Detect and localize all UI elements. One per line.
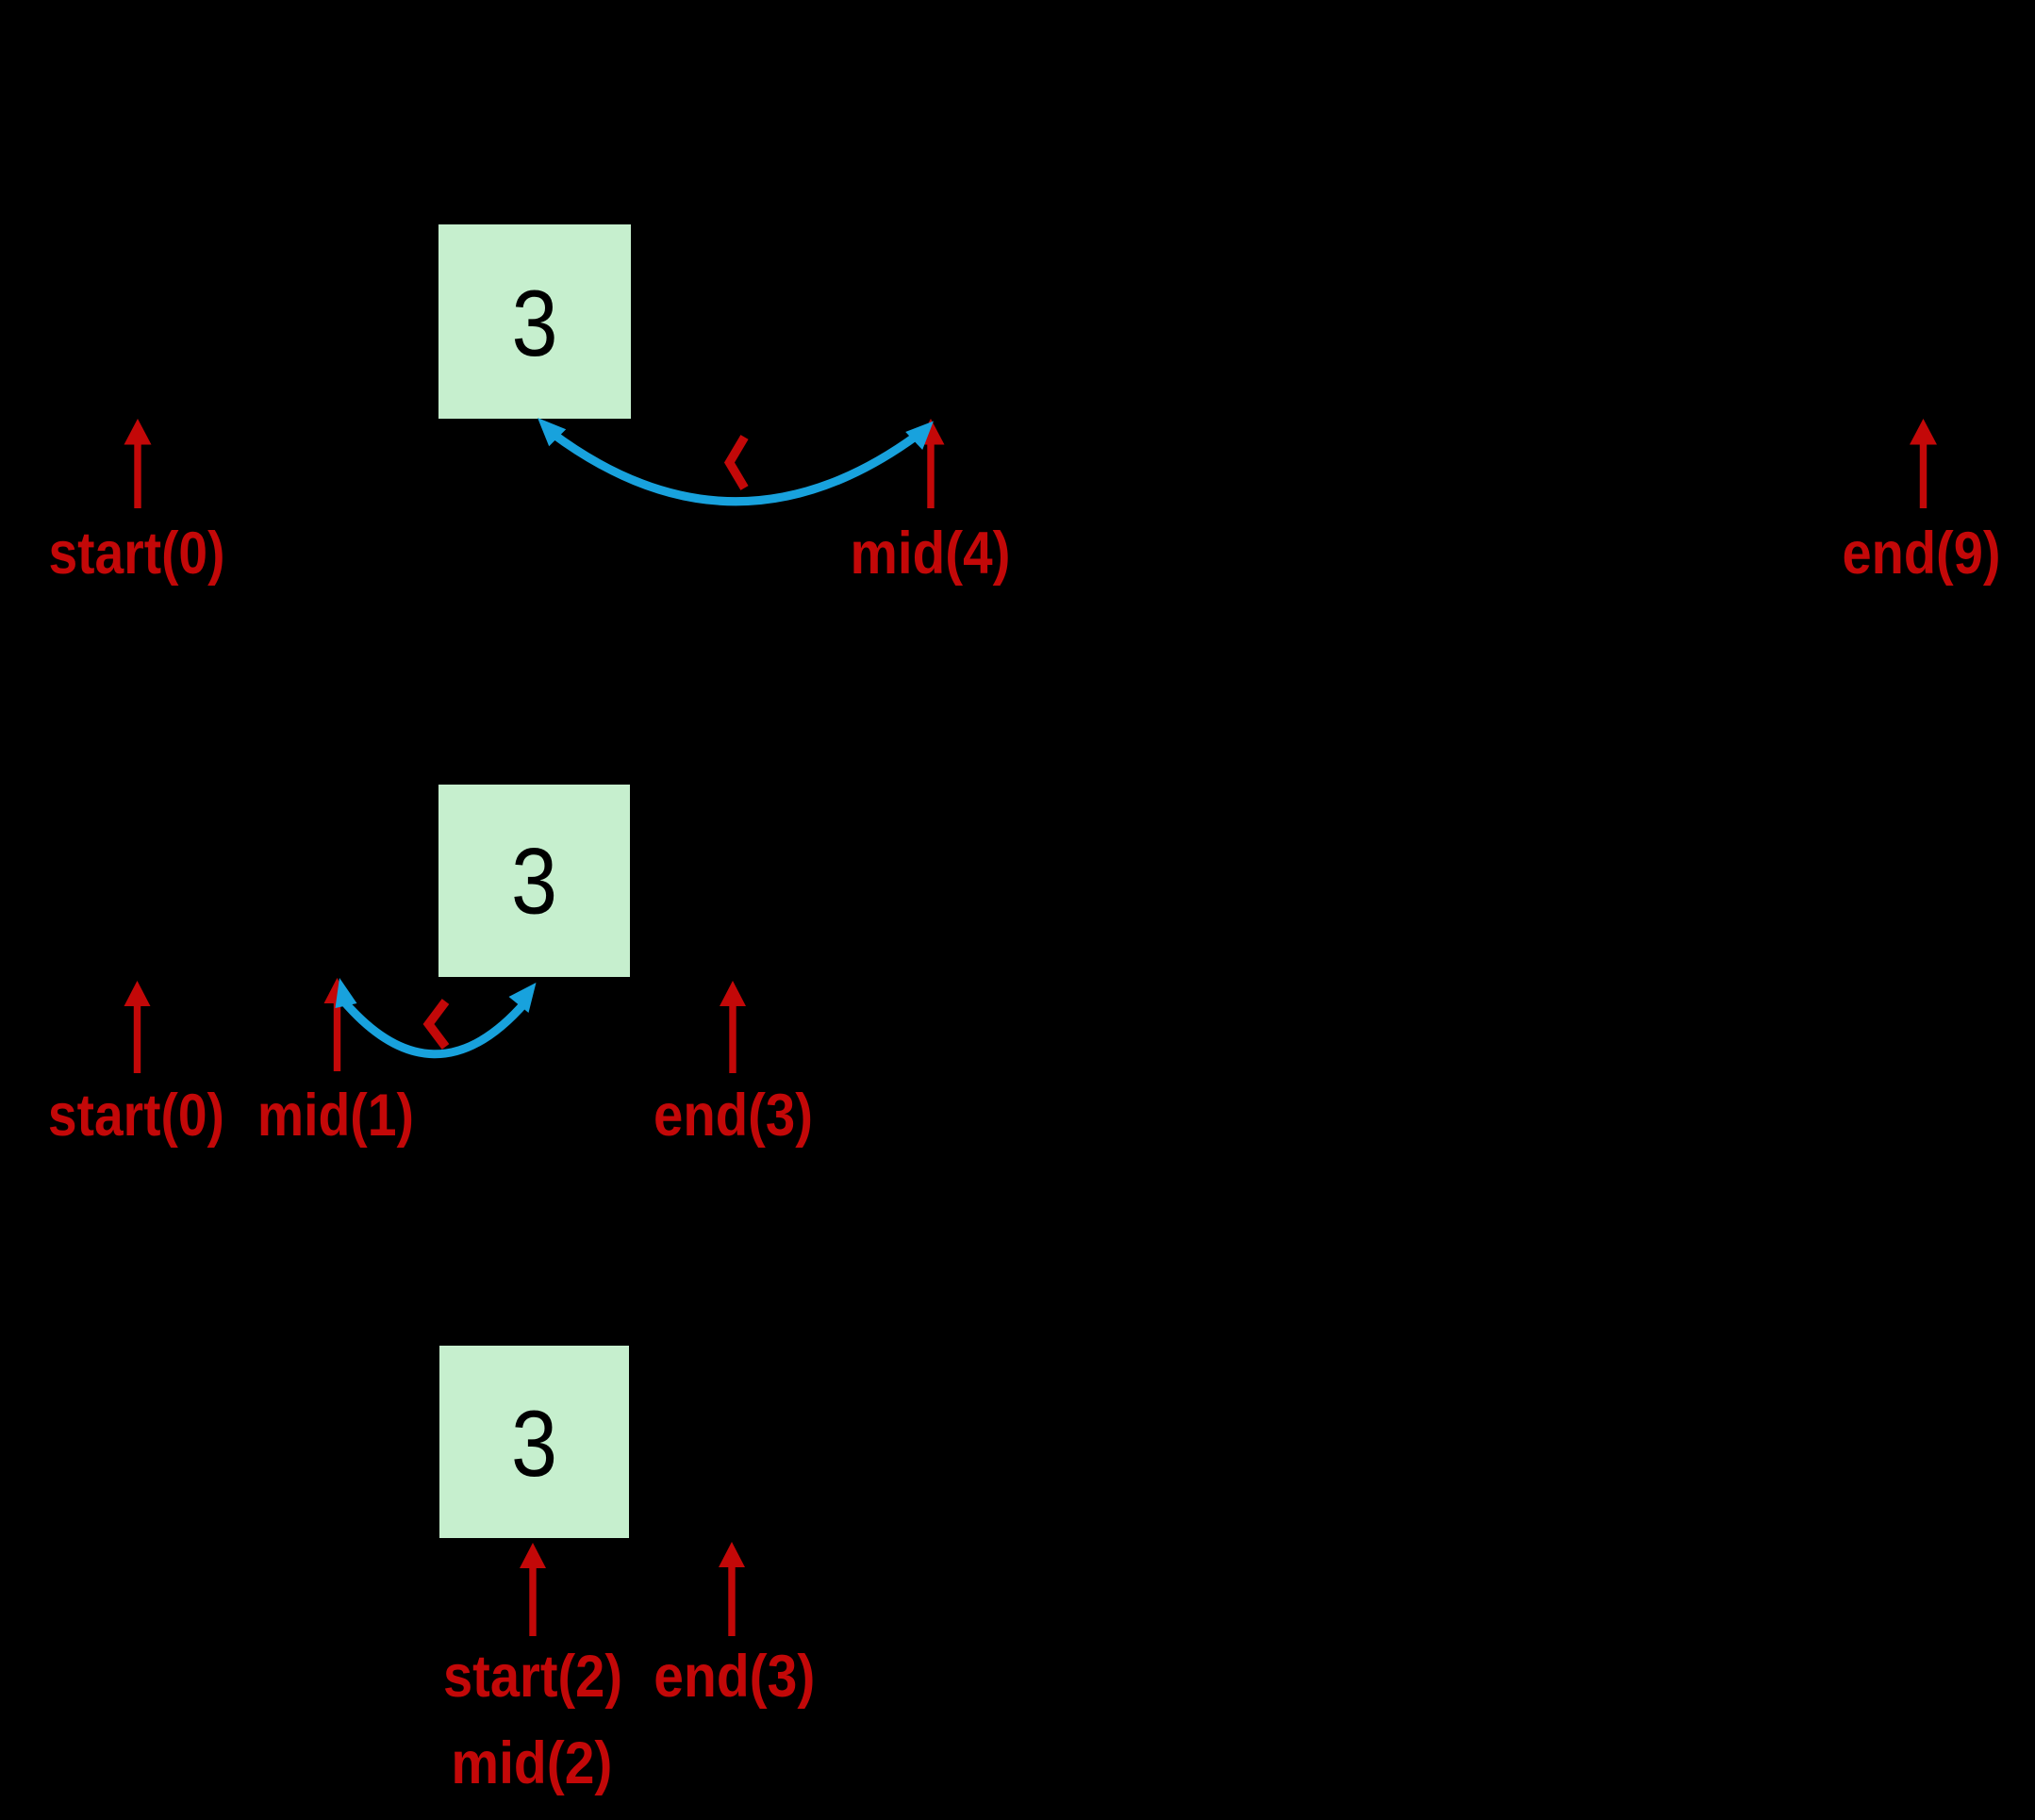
svg-text:end(3): end(3) xyxy=(654,1644,815,1710)
row1 blue arc left arrowhead xyxy=(538,418,566,446)
svg-text:mid(2): mid(2) xyxy=(451,1730,612,1796)
row2 green highlighted cell (array index 2) xyxy=(438,785,630,977)
row3 red pointer arrow end xyxy=(719,1542,745,1636)
svg-text:end(3): end(3) xyxy=(654,1083,813,1149)
svg-text:start(0): start(0) xyxy=(49,521,225,587)
svg-text:mid(1): mid(1) xyxy=(257,1083,414,1149)
svg-text:start(2): start(2) xyxy=(443,1644,622,1710)
row1 red less-than sign xyxy=(730,438,745,488)
svg-text:3: 3 xyxy=(511,829,557,934)
row3 green highlighted cell (array index 2) xyxy=(439,1346,629,1538)
row1 red pointer arrow start xyxy=(124,419,152,508)
row1 blue comparison arc curve xyxy=(552,433,917,502)
row1 green highlighted cell (array index 2) xyxy=(438,224,631,419)
row2 red pointer arrow mid xyxy=(324,978,351,1071)
svg-text:3: 3 xyxy=(511,1391,557,1496)
row2 blue arc left arrowhead xyxy=(336,978,357,1008)
row2 red pointer arrow start xyxy=(124,981,151,1073)
row2 red pointer arrow end xyxy=(720,981,746,1073)
row2 blue comparison arc curve xyxy=(342,1000,525,1054)
row3 red pointer arrow start/mid xyxy=(520,1543,546,1636)
row1 blue arc right arrowhead xyxy=(905,422,934,451)
svg-text:end(9): end(9) xyxy=(1843,521,2001,587)
svg-text:start(0): start(0) xyxy=(48,1083,224,1149)
svg-text:3: 3 xyxy=(512,271,558,375)
svg-text:mid(4): mid(4) xyxy=(851,521,1011,587)
row2 blue arc right arrowhead xyxy=(509,983,537,1013)
row2 red less-than sign xyxy=(429,1001,446,1047)
row1 red pointer arrow mid xyxy=(918,419,945,508)
row1 red pointer arrow end xyxy=(1910,419,1937,508)
